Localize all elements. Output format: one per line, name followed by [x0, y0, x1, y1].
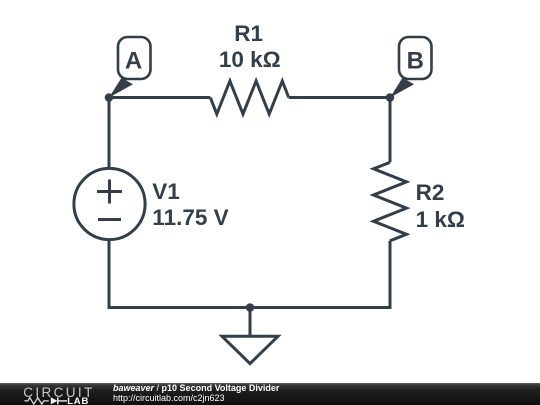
wire left (node A down to V1 plus terminal) — [108, 98, 111, 169]
CircuitLab logo diode — [51, 397, 58, 404]
node B callout pointer — [390, 78, 414, 98]
svg-text:baweaver / p10 Second Voltage: baweaver / p10 Second Voltage Divider — [113, 383, 280, 393]
wire top-right (R1 to node B) — [289, 96, 390, 99]
wire bottom rail (V1 minus terminal down, across, and up to R2) — [109, 240, 390, 308]
CircuitLab logo resistor squiggle — [24, 398, 48, 404]
svg-text:B: B — [407, 48, 424, 75]
wire top-left (node A to R1) — [109, 96, 210, 99]
node A callout pointer — [109, 78, 133, 98]
svg-text:1 kΩ: 1 kΩ — [416, 207, 465, 232]
svg-text:http://circuitlab.com/c2jn623: http://circuitlab.com/c2jn623 — [113, 393, 225, 403]
svg-text:V1: V1 — [152, 179, 180, 204]
svg-text:10 kΩ: 10 kΩ — [219, 47, 281, 72]
svg-text:11.75 V: 11.75 V — [152, 205, 228, 230]
resistor R1 — [210, 81, 288, 114]
svg-text:LAB: LAB — [67, 396, 89, 405]
voltage source V1 circle — [74, 168, 145, 239]
node A callout box — [118, 37, 151, 79]
resistor R2 — [374, 162, 407, 241]
wire right (node B down to R2) — [389, 98, 392, 163]
svg-text:R1: R1 — [234, 21, 263, 46]
svg-text:A: A — [125, 48, 142, 75]
svg-text:R2: R2 — [416, 180, 445, 205]
V1 plus sign — [97, 180, 122, 204]
ground symbol — [222, 336, 278, 363]
node B callout box — [399, 37, 432, 79]
node A junction dot — [105, 93, 114, 102]
ground junction dot — [246, 303, 255, 312]
node B junction dot — [386, 93, 395, 102]
V1 minus sign — [98, 218, 121, 221]
ground stub wire — [249, 308, 252, 337]
